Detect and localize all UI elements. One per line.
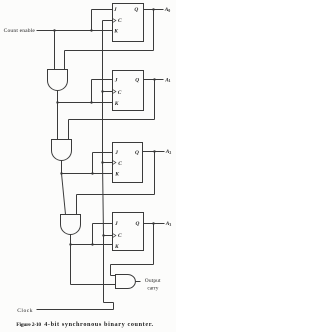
svg-text:Q: Q (135, 78, 139, 84)
flip-flop FF2 (A1) (113, 71, 144, 111)
svg-text:K: K (114, 172, 119, 178)
pin label J of FF2 (114, 78, 118, 84)
wire: G1 output (57, 91, 59, 103)
junction dot: A1 feedback tap (153, 78, 155, 80)
wire: FF4 J input stub (93, 223, 113, 225)
svg-text:C: C (118, 161, 122, 167)
wire: FF2 Q output to A1 (144, 79, 164, 81)
wire: FF2 C clock stub (103, 91, 113, 93)
clock edge triangle FF4 (113, 233, 116, 237)
wire: A2 feedback drop to G3 (76, 195, 78, 215)
node A1 label (164, 77, 171, 83)
wire: enable chain G3 to G4 (70, 245, 72, 285)
wire: enable chain G2 to G3 (62, 174, 66, 215)
caption: title text (44, 321, 154, 328)
junction dot: A0 feedback tap (152, 8, 154, 10)
wire: FF3 C clock stub (103, 162, 113, 164)
svg-text:carry: carry (147, 285, 158, 291)
wire: enable chain G1 to G2 (57, 103, 59, 140)
junction dot: FF1 J-K tie (90, 29, 92, 31)
svg-text:A2: A2 (165, 149, 172, 155)
wire: FF4 J-K tie vertical (92, 224, 94, 245)
pin label Q of FF3 (135, 150, 139, 156)
junction dot: G2 out chain (60, 172, 62, 174)
svg-text:Clock: Clock (17, 308, 33, 314)
svg-text:K: K (113, 28, 118, 34)
wire: A0 feedback vertical (153, 10, 155, 51)
junction dot: clock rail to FF4 C (102, 234, 104, 236)
flip-flop FF3 (A2) (113, 143, 143, 183)
pin label K of FF1 (113, 28, 118, 34)
wire: clock jog (104, 302, 114, 304)
wire: FF4 C clock stub (104, 235, 113, 237)
wire: clock riser (113, 303, 115, 310)
AND gate G3 (61, 215, 81, 235)
wire: FF1 Q output to A0 (144, 9, 164, 11)
pin label Q of FF4 (136, 221, 140, 227)
wire: FF3 J-K tie vertical (92, 153, 94, 174)
junction dot: A2 feedback tap (153, 150, 155, 152)
junction dot: count enable to G1 (53, 29, 55, 31)
wire: FF3 Q output to A2 (143, 151, 165, 153)
pin label J of FF1 (113, 7, 117, 13)
wire: FF1 C clock stub (103, 20, 113, 22)
wire: count enable drop to G1 (54, 31, 56, 70)
wire: A0 feedback horizontal (65, 50, 154, 52)
svg-text:C: C (118, 233, 122, 239)
wire: FF1 J input stub (92, 9, 113, 11)
wire: FF2 J-K tie vertical (91, 80, 93, 103)
wire: FF2 J input stub (92, 79, 113, 81)
wire: enable to FF4 JK (71, 244, 113, 246)
pin label J of FF4 (114, 221, 118, 227)
junction dot: G1 out chain (56, 101, 58, 103)
wire: A2 feedback horizontal (77, 194, 155, 196)
junction dot: clock rail to FF2 C (101, 90, 103, 92)
flip-flop FF4 (A3) (113, 213, 144, 251)
node A0 label (164, 7, 171, 13)
svg-text:J: J (113, 7, 117, 13)
pin label C of FF2 (118, 90, 122, 96)
wire: G2 output (61, 161, 63, 174)
svg-text:Q: Q (135, 150, 139, 156)
svg-text:J: J (114, 78, 118, 84)
svg-text:J: J (114, 150, 118, 156)
wire: A2 feedback vertical (154, 152, 156, 195)
AND gate G4 (output carry) (116, 275, 136, 289)
svg-text:A3: A3 (165, 221, 172, 227)
pin label K of FF3 (114, 172, 119, 178)
wire: FF3 J input stub (93, 152, 113, 154)
svg-text:4-bit synchronous binary count: 4-bit synchronous binary counter. (44, 321, 154, 328)
pin label K of FF4 (114, 244, 119, 250)
node: Clock label (17, 308, 33, 314)
svg-text:Count enable: Count enable (4, 28, 36, 34)
junction dot: G3 out chain (69, 243, 71, 245)
node: Count enable label (4, 28, 36, 34)
wire: A1 feedback vertical (154, 80, 156, 120)
node A3 label (165, 221, 172, 227)
wire: clock input (37, 309, 114, 311)
junction dot: clock rail to FF3 C (101, 161, 103, 163)
wire: G3 output (70, 235, 72, 245)
clock edge triangle FF3 (113, 160, 116, 164)
pin label J of FF3 (114, 150, 118, 156)
junction dot: FF4 J-K tie (91, 243, 93, 245)
wire: FF4 Q output to A3 (144, 223, 165, 225)
junction dot: FF2 J-K tie (90, 101, 92, 103)
svg-text:Q: Q (134, 7, 138, 13)
wire: A3 feedback horizontal (111, 264, 154, 266)
wire: A1 feedback horizontal (69, 119, 155, 121)
wire: A1 feedback drop to G2 (68, 120, 70, 140)
svg-text:C: C (118, 90, 122, 96)
pin label Q of FF1 (134, 7, 138, 13)
wire: enable to FF2 JK (58, 102, 113, 104)
wire: A0 feedback drop to G1 (64, 51, 66, 70)
node A2 label (165, 149, 172, 155)
wire: A3 feedback jog down (110, 265, 112, 276)
wire: clock rail vertical (103, 21, 104, 303)
pin label K of FF2 (114, 101, 119, 107)
caption: Figure 2-10 (16, 322, 41, 328)
wire: enable into G4 (71, 284, 116, 286)
node: Output carry label (145, 278, 161, 291)
svg-text:A0: A0 (164, 7, 171, 13)
junction dot: FF3 J-K tie (91, 172, 93, 174)
pin label C of FF3 (118, 161, 122, 167)
AND gate G2 (52, 140, 72, 161)
svg-text:Figure 2-10: Figure 2-10 (16, 322, 41, 328)
svg-text:C: C (118, 18, 122, 24)
wire: count enable input (37, 30, 113, 32)
clock edge triangle FF1 (113, 18, 116, 22)
wire: A3 feedback vertical (153, 224, 155, 265)
svg-text:J: J (114, 221, 118, 227)
svg-text:K: K (114, 244, 119, 250)
wire: FF1 J-K tie vertical (91, 10, 93, 31)
junction dot: A3 feedback tap (152, 222, 154, 224)
wire: enable to FF3 JK (62, 173, 113, 175)
svg-text:Output: Output (145, 278, 161, 284)
svg-text:A1: A1 (164, 77, 171, 83)
svg-text:Q: Q (136, 221, 140, 227)
pin label Q of FF2 (135, 78, 139, 84)
AND gate G1 (48, 70, 68, 91)
pin label C of FF1 (118, 18, 122, 24)
pin label C of FF4 (118, 233, 122, 239)
wire: G4 output stub (136, 281, 141, 283)
clock edge triangle FF2 (113, 89, 116, 93)
wire: A3 feedback into G4 (111, 275, 116, 277)
svg-text:K: K (114, 101, 119, 107)
flip-flop FF1 (A0) (113, 4, 144, 42)
